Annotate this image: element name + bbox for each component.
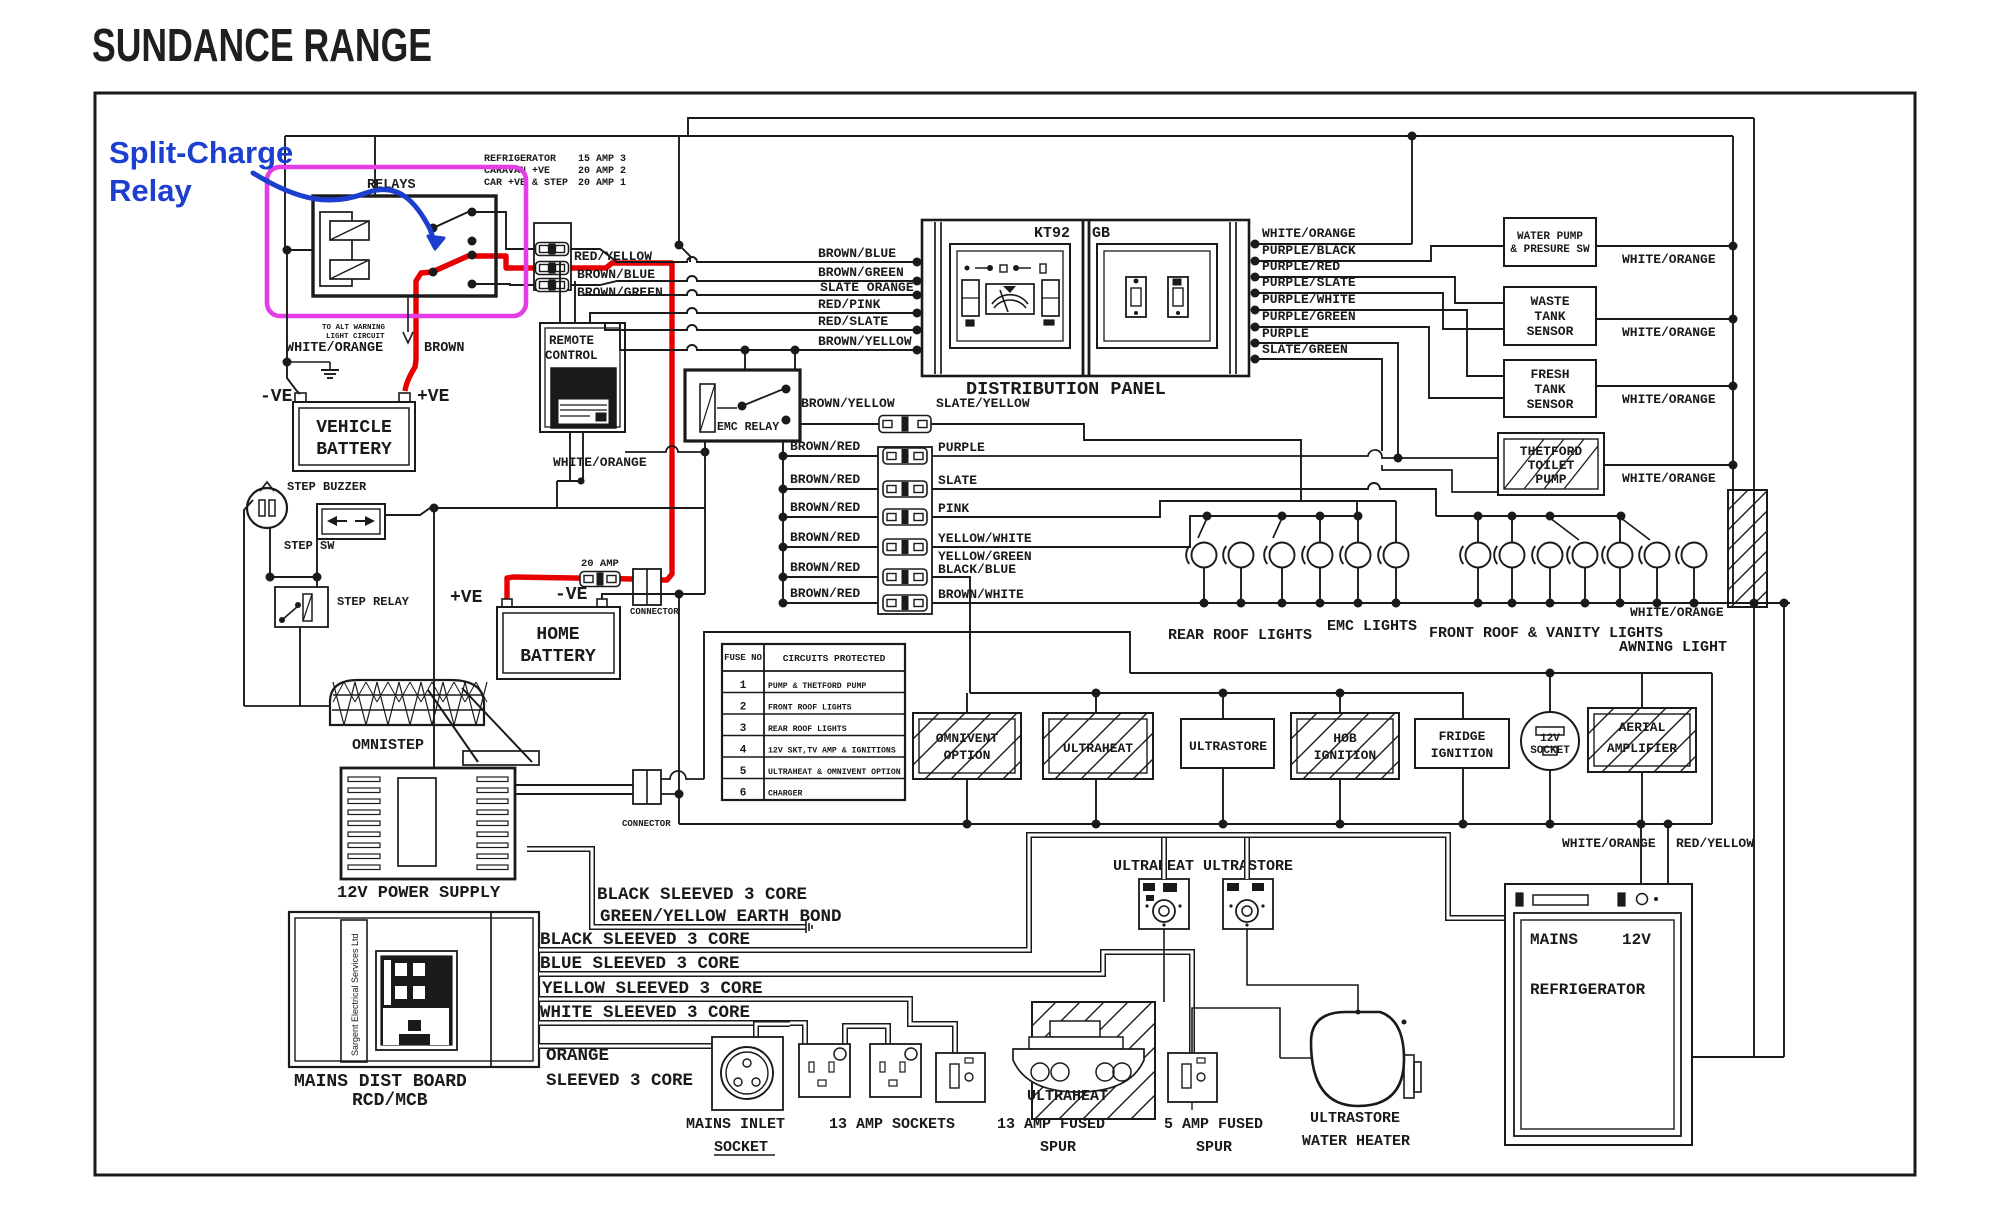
svg-text:20 AMP: 20 AMP — [581, 558, 619, 570]
svg-text:AWNING LIGHT: AWNING LIGHT — [1619, 639, 1727, 656]
svg-text:PURPLE: PURPLE — [938, 440, 985, 455]
label WHITE/ORANGE remote — [553, 455, 647, 470]
svg-text:12V: 12V — [1540, 733, 1560, 745]
svg-text:PURPLE/WHITE: PURPLE/WHITE — [1262, 292, 1356, 307]
svg-text:WHITE/ORANGE: WHITE/ORANGE — [1262, 226, 1356, 241]
relay EMC RELAY box — [685, 370, 800, 441]
wire connector2 to options return — [661, 793, 679, 795]
svg-text:MAINS INLET: MAINS INLET — [686, 1116, 785, 1133]
nodes rear lights bus — [1203, 512, 1363, 521]
node relay left junction — [283, 246, 292, 255]
svg-text:2: 2 — [740, 702, 747, 714]
battery HOME BATTERY — [497, 607, 620, 679]
svg-text:CONNECTOR: CONNECTOR — [622, 819, 671, 829]
svg-text:SLATE ORANGE: SLATE ORANGE — [820, 280, 914, 295]
svg-text:BROWN/RED: BROWN/RED — [790, 530, 860, 545]
svg-text:+VE: +VE — [417, 387, 450, 407]
node top-bus junction to red/yellow — [675, 241, 684, 250]
heater ULTRASTORE WATER HEATER — [1311, 1010, 1421, 1107]
pump THETFORD TOILET PUMP — [1498, 433, 1604, 495]
label PINK fuse out — [938, 501, 969, 516]
svg-text:WHITE SLEEVED 3 CORE: WHITE SLEEVED 3 CORE — [540, 1003, 750, 1023]
svg-text:RED/SLATE: RED/SLATE — [818, 314, 888, 329]
label WHITE/ORANGE fridge feed — [1562, 836, 1656, 851]
svg-text:REFRIGERATOR: REFRIGERATOR — [1530, 981, 1646, 999]
label RED/SLATE — [818, 314, 888, 329]
svg-text:BATTERY: BATTERY — [520, 647, 596, 667]
svg-text:BROWN: BROWN — [424, 341, 465, 356]
nodes brown/red feeds — [779, 452, 788, 608]
label ULTRAHEAT fire — [1027, 1088, 1108, 1105]
label ULTRASTORE WATER HEATER — [1302, 1110, 1410, 1150]
svg-text:BROWN/GREEN: BROWN/GREEN — [818, 265, 904, 280]
blue arrow from label to relay contact — [253, 173, 444, 249]
wire brown/white run to lights return bus — [932, 602, 1790, 604]
node connector2 junction — [675, 790, 684, 799]
switch lamp 3 feed — [1273, 518, 1282, 538]
svg-text:GB: GB — [1092, 225, 1110, 242]
svg-text:CONNECTOR: CONNECTOR — [630, 607, 679, 617]
rotary switch ultraheat — [1139, 879, 1189, 929]
svg-text:PUMP & THETFORD PUMP: PUMP & THETFORD PUMP — [768, 682, 866, 691]
wires remote control bottom drops — [557, 432, 583, 508]
wire waste tank to bus — [1596, 318, 1733, 320]
svg-text:Relay: Relay — [109, 173, 192, 208]
wire step sw to white/orange junction — [385, 508, 705, 515]
nodes panel outputs — [1251, 240, 1260, 364]
cable orange sleeved to mains inlet — [539, 1043, 712, 1049]
wire thetford to bus — [1604, 464, 1733, 466]
svg-text:+VE: +VE — [450, 588, 483, 608]
wire ultraheat rotary to spur box — [1163, 929, 1165, 1002]
title SUNDANCE RANGE — [92, 19, 432, 71]
svg-text:15 AMP 3: 15 AMP 3 — [578, 154, 626, 165]
label BROWN/GREEN right — [818, 265, 904, 280]
svg-text:12V SKT,TV AMP & IGNITIONS: 12V SKT,TV AMP & IGNITIONS — [768, 747, 896, 756]
wire right vertical white/orange bus — [1732, 136, 1734, 602]
svg-text:EMC RELAY: EMC RELAY — [717, 421, 779, 434]
panel meter module — [950, 244, 1070, 348]
svg-text:FRONT ROOF LIGHTS: FRONT ROOF LIGHTS — [768, 704, 852, 713]
svg-text:RED/PINK: RED/PINK — [818, 297, 881, 312]
svg-text:BLACK SLEEVED 3 CORE: BLACK SLEEVED 3 CORE — [597, 885, 807, 905]
label -VE home — [555, 585, 588, 605]
cable white sleeved to sockets — [539, 1023, 805, 1044]
svg-text:KT92: KT92 — [1034, 225, 1070, 242]
label 5 AMP FUSED SPUR — [1164, 1116, 1263, 1156]
svg-text:Sargent Electrical Services Lt: Sargent Electrical Services Ltd — [350, 933, 360, 1056]
relay K1 coil assembly — [320, 212, 369, 286]
wire ultrastore rotary to water heater — [1247, 929, 1358, 1012]
node 12v socket feed — [1546, 669, 1555, 678]
svg-text:ULTRASTORE: ULTRASTORE — [1189, 739, 1267, 754]
relay box K1 outline — [313, 196, 496, 296]
unit ULTRASTORE option — [1181, 719, 1274, 768]
svg-text:PURPLE/GREEN: PURPLE/GREEN — [1262, 309, 1356, 324]
svg-text:DISTRIBUTION PANEL: DISTRIBUTION PANEL — [966, 379, 1166, 400]
svg-text:STEP SW: STEP SW — [284, 539, 335, 553]
svg-text:MAINS: MAINS — [1530, 931, 1578, 949]
wire white/orange panel to top bus riser — [1255, 243, 1412, 245]
wire white/orange drop to refrigerator — [1640, 824, 1642, 884]
fusebox 12V fuse column — [878, 447, 932, 614]
label WHITE/ORANGE waste — [1622, 325, 1716, 340]
relay STEP RELAY box — [275, 587, 328, 627]
svg-text:LIGHT CIRCUIT: LIGHT CIRCUIT — [326, 333, 385, 341]
wire spur2 feed to heater — [1192, 1008, 1311, 1058]
svg-text:SPUR: SPUR — [1040, 1139, 1076, 1156]
label YELLOW/GREEN BLACK/BLUE fuse out — [938, 549, 1032, 577]
label -VE vehicle — [260, 387, 293, 407]
label YELLOW SLEEVED 3 CORE — [542, 979, 763, 999]
label MAINS INLET SOCKET — [686, 1116, 785, 1156]
svg-text:BROWN/YELLOW: BROWN/YELLOW — [818, 334, 912, 349]
nodes lights return bus — [1200, 599, 1759, 608]
wire emc output to fuse — [800, 423, 879, 425]
wire brown/blue run to panel — [571, 249, 917, 262]
label REAR ROOF LIGHTS — [1168, 627, 1312, 644]
unit HOB IGNITION — [1291, 713, 1399, 779]
wire slate/yellow to lights feed — [931, 424, 1301, 501]
svg-text:BROWN/RED: BROWN/RED — [790, 560, 860, 575]
svg-text:-VE: -VE — [260, 387, 293, 407]
svg-text:FUSE NO: FUSE NO — [724, 653, 762, 663]
svg-text:ULTRAHEAT ULTRASTORE: ULTRAHEAT ULTRASTORE — [1113, 858, 1293, 875]
label WHITE/ORANGE fresh — [1622, 392, 1716, 407]
svg-text:ULTRAHEAT: ULTRAHEAT — [1027, 1088, 1108, 1105]
label RCD/MCB — [352, 1091, 428, 1111]
wire vehicle battery -VE riser — [287, 250, 300, 394]
connector C1 to car loom — [633, 569, 661, 605]
wire lights return drop right — [1783, 603, 1785, 1057]
svg-text:PURPLE/BLACK: PURPLE/BLACK — [1262, 243, 1356, 258]
svg-text:HOME: HOME — [536, 625, 579, 645]
wire options feed right drop — [1711, 673, 1713, 824]
wire from top bus junction joining bundle — [679, 245, 690, 262]
svg-text:REFRIGERATOR: REFRIGERATOR — [484, 154, 556, 165]
omnistep actuator struts — [428, 688, 539, 765]
svg-text:FRESH: FRESH — [1530, 367, 1569, 382]
switch lamp 1 feed — [1198, 518, 1207, 538]
wire brown/yellow run to panel — [620, 323, 917, 350]
label REFRIGERATOR — [1530, 981, 1646, 999]
switch awning lamp feed — [1621, 518, 1650, 540]
svg-text:WATER HEATER: WATER HEATER — [1302, 1133, 1410, 1150]
label +VE home — [450, 588, 483, 608]
wire step circuit down to power supply — [433, 508, 435, 768]
svg-text:BROWN/BLUE: BROWN/BLUE — [818, 246, 896, 261]
svg-text:PURPLE: PURPLE — [1262, 326, 1309, 341]
nodes options return bus — [963, 820, 1673, 829]
relay fuse block — [534, 223, 571, 292]
label STEP RELAY — [337, 595, 410, 609]
wire relay to alt warning arrow — [403, 296, 413, 343]
wire slate run to front roof lights — [932, 483, 1436, 516]
cable black sleeved to refrigerator — [539, 835, 1505, 950]
svg-text:WHITE/ORANGE: WHITE/ORANGE — [553, 455, 647, 470]
wire vertical from top bus to relay outputs — [678, 136, 680, 245]
wires psu to connector2 — [515, 785, 633, 794]
fuse slate/yellow holder — [879, 416, 931, 433]
label AWNING LIGHT — [1619, 639, 1727, 656]
label FRONT ROOF & VANITY LIGHTS — [1429, 625, 1663, 642]
svg-text:6: 6 — [740, 788, 747, 800]
wire rear roof lights top bus — [1204, 515, 1358, 517]
wire right vertical red/yellow drop to refrigerator — [1692, 118, 1754, 1057]
node remote drop junction — [577, 477, 584, 484]
svg-text:SLATE/GREEN: SLATE/GREEN — [1262, 342, 1348, 357]
label STEP SW — [284, 539, 335, 553]
svg-text:TANK: TANK — [1534, 309, 1565, 324]
svg-text:TOILET: TOILET — [1528, 458, 1575, 473]
svg-text:WATER PUMP: WATER PUMP — [1517, 231, 1583, 243]
svg-text:WHITE/ORANGE: WHITE/ORANGE — [1630, 605, 1724, 620]
svg-text:SOCKET: SOCKET — [1530, 745, 1570, 757]
nodes front lights bus — [1474, 512, 1626, 521]
label BROWN/BLUE right — [818, 246, 896, 261]
node panel inputs — [913, 258, 922, 355]
wire purple/white to fresh tank — [1255, 310, 1504, 376]
node emc drop junction — [701, 448, 710, 457]
wire buzzer left drop to omnistep — [244, 500, 253, 706]
wires lamp bottom stubs — [1204, 567, 1694, 603]
wires lamp stubs group1 top — [1320, 501, 1396, 543]
svg-text:12V POWER SUPPLY: 12V POWER SUPPLY — [337, 884, 501, 903]
label STEP BUZZER — [287, 480, 367, 494]
svg-text:BATTERY: BATTERY — [316, 440, 392, 460]
svg-text:WHITE/ORANGE: WHITE/ORANGE — [1622, 392, 1716, 407]
wire slate/green panel drop to thetford — [1255, 359, 1498, 492]
fridge REFRIGERATOR outline — [1505, 884, 1692, 1145]
svg-text:3: 3 — [740, 723, 747, 735]
wire purple run to thetford pump — [932, 450, 1498, 458]
label SLATE/YELLOW — [936, 396, 1030, 411]
svg-text:BROWN/YELLOW: BROWN/YELLOW — [801, 396, 895, 411]
nodes options top bus — [1092, 689, 1345, 698]
svg-text:FRIDGE: FRIDGE — [1439, 729, 1486, 744]
node emc feed junctions — [741, 346, 800, 355]
step motor OMNISTEP — [244, 680, 487, 725]
svg-text:BROWN/RED: BROWN/RED — [790, 500, 860, 515]
label MAINS 12V — [1530, 931, 1651, 949]
wire purple panel drop — [1255, 343, 1398, 458]
svg-text:-VE: -VE — [555, 585, 588, 605]
svg-text:GREEN/YELLOW EARTH BOND: GREEN/YELLOW EARTH BOND — [600, 907, 842, 927]
svg-text:ULTRAHEAT & OMNIVENT OPTION: ULTRAHEAT & OMNIVENT OPTION — [768, 768, 901, 777]
svg-text:BLACK SLEEVED 3 CORE: BLACK SLEEVED 3 CORE — [540, 930, 750, 950]
wire options upper feed line — [1130, 672, 1712, 674]
svg-text:AMPLIFIER: AMPLIFIER — [1607, 741, 1677, 756]
cable psu black sleeved + earth bond — [527, 849, 806, 927]
svg-text:SENSOR: SENSOR — [1527, 397, 1574, 412]
psu 12V POWER SUPPLY — [341, 768, 515, 879]
wire relay contact to fuse 3 — [472, 284, 534, 285]
node step junction — [430, 504, 439, 513]
ground chassis symbol — [287, 362, 339, 378]
wire red/slate run to panel — [605, 323, 917, 330]
svg-text:CIRCUITS PROTECTED: CIRCUITS PROTECTED — [783, 653, 886, 664]
node fresh bus junction — [1729, 382, 1738, 391]
buzzer STEP BUZZER — [247, 482, 287, 528]
node ground junction — [283, 358, 292, 367]
wire brown/green run to panel — [571, 276, 917, 285]
svg-text:5 AMP FUSED: 5 AMP FUSED — [1164, 1116, 1263, 1133]
wires option box feeds — [967, 693, 1340, 719]
unit WATER PUMP & PRESURE SW — [1504, 218, 1596, 266]
svg-text:WHITE/ORANGE: WHITE/ORANGE — [286, 341, 383, 356]
wire options top bus — [970, 693, 1463, 719]
svg-text:20 AMP 2: 20 AMP 2 — [578, 166, 626, 177]
label BROWN/YELLOW emc — [801, 396, 895, 411]
rotary switch ultrastore — [1223, 879, 1273, 929]
socket MAINS INLET SOCKET — [712, 1037, 783, 1110]
svg-text:WHITE/ORANGE: WHITE/ORANGE — [1622, 325, 1716, 340]
wire yellow/white run — [932, 516, 1204, 547]
label MAINS DIST BOARD — [294, 1072, 467, 1092]
label BROWN/WHITE fuse out — [938, 587, 1024, 602]
wire step relay drop to omnistep — [299, 627, 301, 706]
label OMNISTEP — [352, 737, 424, 754]
lamps rear roof and emc lights — [1186, 543, 1408, 568]
label GREEN/YELLOW EARTH BOND — [600, 907, 842, 927]
wire water pump to white/orange bus — [1596, 245, 1733, 247]
svg-text:BROWN/WHITE: BROWN/WHITE — [938, 587, 1024, 602]
svg-text:SLATE: SLATE — [938, 473, 977, 488]
svg-text:20 AMP 1: 20 AMP 1 — [578, 178, 626, 189]
wire red/yellow drop to refrigerator — [1667, 824, 1669, 884]
label 20 AMP — [581, 558, 619, 570]
label WHITE/ORANGE water pump — [1622, 252, 1716, 267]
cable link inlet to socket1 — [756, 1024, 790, 1037]
svg-text:IGNITION: IGNITION — [1431, 746, 1493, 761]
label EMC LIGHTS — [1327, 618, 1417, 635]
heater ULTRAHEAT fire element — [1013, 1021, 1144, 1092]
wire top bus 2 (white/orange across top) — [285, 135, 1733, 137]
label WHITE/ORANGE thetford — [1622, 471, 1716, 486]
svg-text:1: 1 — [740, 680, 747, 692]
svg-text:EMC LIGHTS: EMC LIGHTS — [1327, 618, 1417, 635]
svg-text:THETFORD: THETFORD — [1520, 444, 1583, 459]
label KT92 GB — [1034, 225, 1110, 242]
label RED/YELLOW fridge feed — [1676, 836, 1754, 851]
wire pink run to rear roof lights feed — [932, 501, 1396, 517]
node purple junction — [1394, 454, 1403, 463]
svg-text:WHITE/ORANGE: WHITE/ORANGE — [1622, 471, 1716, 486]
node step relay feeds — [266, 573, 322, 582]
svg-text:WASTE: WASTE — [1530, 294, 1569, 309]
board MAINS DIST BOARD RCD/MCB — [289, 912, 539, 1067]
svg-text:WHITE/ORANGE: WHITE/ORANGE — [1622, 252, 1716, 267]
unit ULTRAHEAT option — [1043, 713, 1153, 779]
svg-text:SOCKET: SOCKET — [714, 1139, 768, 1156]
relay K1 switch contacts — [429, 208, 477, 289]
svg-text:13 AMP SOCKETS: 13 AMP SOCKETS — [829, 1116, 955, 1133]
wire junction down to options bus — [678, 594, 680, 824]
label SLATE fuse out — [938, 473, 977, 488]
cable drops to rotary switches — [1164, 838, 1247, 879]
svg-text:BROWN/RED: BROWN/RED — [790, 472, 860, 487]
svg-text:CONTROL: CONTROL — [545, 349, 598, 363]
wire spur2 to water heater — [1191, 1102, 1193, 1110]
label TO ALT WARNING LIGHT CIRCUIT — [322, 324, 386, 341]
unit AERIAL AMPLIFIER — [1588, 673, 1696, 772]
svg-text:STEP RELAY: STEP RELAY — [337, 595, 410, 609]
wires brown/red feeds — [783, 456, 878, 603]
svg-text:REAR ROOF LIGHTS: REAR ROOF LIGHTS — [1168, 627, 1312, 644]
node water pump bus junction — [1729, 242, 1738, 251]
panel DISTRIBUTION PANEL outline — [922, 220, 1249, 376]
svg-text:STEP BUZZER: STEP BUZZER — [287, 480, 367, 494]
hatched box ULTRAHEAT fire — [1032, 1002, 1155, 1119]
wire front lights top bus — [1436, 515, 1621, 517]
svg-text:OMNISTEP: OMNISTEP — [352, 737, 424, 754]
wire fresh tank to bus — [1596, 385, 1733, 387]
wires remote control to loom — [560, 262, 605, 330]
svg-text:HOB: HOB — [1333, 731, 1357, 746]
battery VEHICLE BATTERY — [293, 402, 415, 471]
wires lamp stubs group2 top — [1478, 516, 1620, 543]
svg-text:SENSOR: SENSOR — [1527, 324, 1574, 339]
label 12V POWER SUPPLY — [337, 884, 501, 903]
table fuse number / circuits protected — [722, 644, 905, 800]
wire red/pink run to panel — [590, 308, 917, 323]
svg-text:5: 5 — [740, 766, 747, 778]
wire relay contact to fuse 1 — [472, 212, 534, 249]
svg-text:OPTION: OPTION — [944, 748, 991, 763]
label BROWN/YELLOW bundle — [818, 334, 912, 349]
lamps front roof vanity awning — [1460, 543, 1706, 568]
label CONNECTOR C1 — [630, 607, 679, 617]
svg-text:SUNDANCE RANGE: SUNDANCE RANGE — [92, 19, 432, 71]
switch STEP SW box with arrows — [317, 504, 385, 539]
unit OMNIVENT OPTION — [913, 713, 1021, 779]
cable blue sleeved to 5 amp spur — [539, 952, 1192, 1053]
vehicle battery terminals — [295, 393, 410, 402]
svg-text:REMOTE: REMOTE — [549, 334, 594, 348]
label 13 AMP SOCKETS — [829, 1116, 955, 1133]
wire emc relay drop to fuse feeds — [782, 441, 784, 603]
svg-text:ORANGE: ORANGE — [546, 1046, 609, 1066]
label WHITE SLEEVED 3 CORE — [540, 1003, 750, 1023]
svg-text:PINK: PINK — [938, 501, 969, 516]
label CONNECTOR C2 — [622, 819, 671, 829]
svg-text:CHARGER: CHARGER — [768, 790, 802, 799]
connector C2 psu — [633, 770, 661, 804]
wire relays enclosure left drop — [284, 136, 286, 250]
home battery terminals — [502, 599, 607, 607]
svg-text:BLUE SLEEVED 3 CORE: BLUE SLEEVED 3 CORE — [540, 954, 740, 974]
wire red highlight: home battery +VE through 20 AMP fuse to connector — [507, 577, 661, 599]
svg-text:BROWN/RED: BROWN/RED — [790, 439, 860, 454]
svg-text:VEHICLE: VEHICLE — [316, 418, 392, 438]
wire buzzer bottom drop — [269, 528, 271, 577]
label DISTRIBUTION PANEL — [966, 379, 1166, 400]
label BLUE SLEEVED 3 CORE — [540, 954, 740, 974]
svg-text:SPUR: SPUR — [1196, 1139, 1232, 1156]
fridge inner compartment — [1514, 913, 1681, 1136]
wire riser distribution panel white/orange to top bus — [1411, 136, 1413, 244]
wire relay box feed from top — [374, 136, 376, 196]
label ORANGE SLEEVED 3 CORE — [546, 1046, 693, 1091]
svg-text:BROWN/BLUE: BROWN/BLUE — [577, 267, 655, 282]
wire charger loop around fuse table — [704, 632, 1130, 779]
label BROWN/GREEN left — [577, 285, 663, 300]
label BROWN — [424, 341, 465, 356]
cable yellow sleeved to 13 amp spur — [539, 999, 955, 1053]
svg-text:RED/YELLOW: RED/YELLOW — [1676, 836, 1754, 851]
socket 13 AMP no2 — [870, 1044, 921, 1097]
label ULTRAHEAT ULTRASTORE switches — [1113, 858, 1293, 875]
